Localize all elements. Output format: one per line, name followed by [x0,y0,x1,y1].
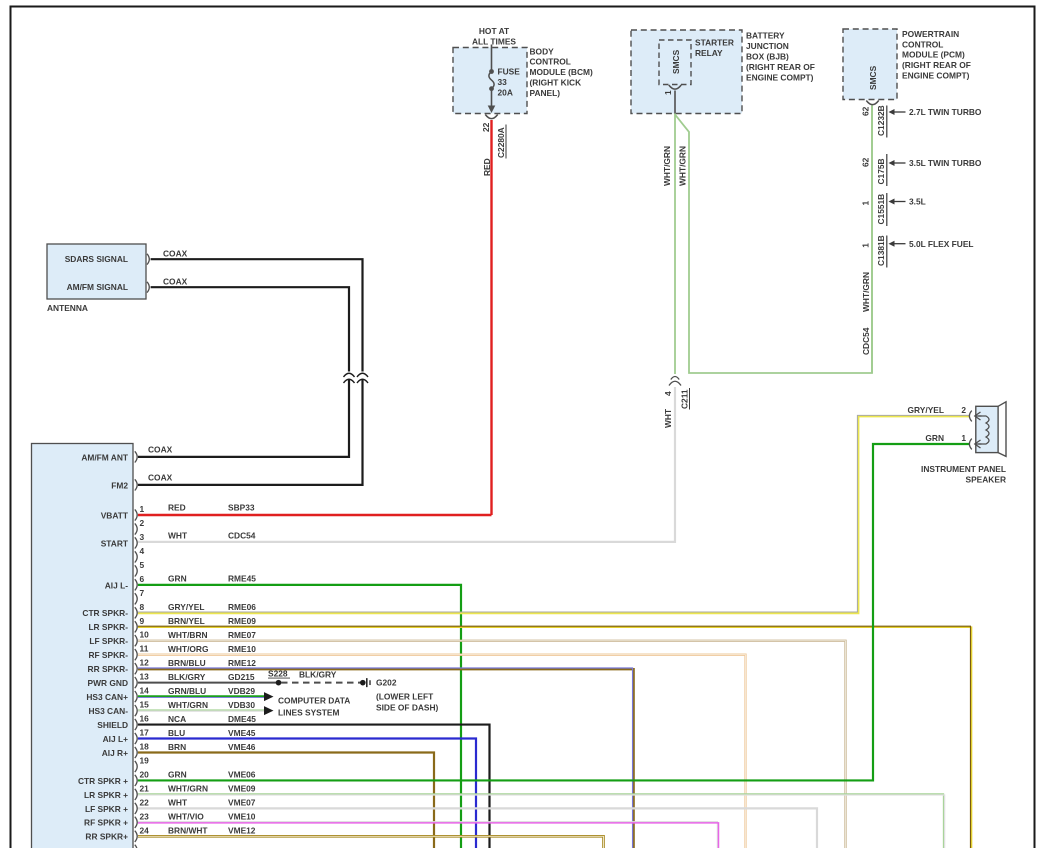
connector C2280A arc [485,115,497,119]
svg-text:WHT/GRN: WHT/GRN [168,784,208,794]
svg-text:RR SPKR+: RR SPKR+ [85,832,128,842]
svg-text:62: 62 [861,106,871,116]
module BCM box [453,48,527,114]
wire pin12 RR SPKR- BRN/BLU RME12 [138,669,634,848]
svg-text:2.7L TWIN TURBO: 2.7L TWIN TURBO [909,107,982,117]
svg-text:WHT/GRN: WHT/GRN [678,146,688,186]
svg-text:C175B: C175B [876,158,886,184]
svg-text:4: 4 [140,546,145,556]
svg-text:WHT/VIO: WHT/VIO [168,812,204,822]
svg-text:COAX: COAX [148,445,173,455]
svg-text:WHT: WHT [168,531,188,541]
svg-text:22: 22 [481,122,491,132]
svg-text:1: 1 [140,504,145,514]
svg-text:VME10: VME10 [228,812,256,822]
svg-text:SHIELD: SHIELD [97,720,128,730]
svg-text:LF SPKR-: LF SPKR- [89,636,128,646]
svg-text:C211: C211 [680,389,690,409]
svg-text:9: 9 [140,616,145,626]
svg-text:23: 23 [140,811,150,821]
wire pin15 HS3 CAN- WHT/GRN VDB30 [138,709,265,711]
svg-text:LF SPKR +: LF SPKR + [85,804,128,814]
svg-text:RME07: RME07 [228,630,256,640]
svg-text:BLK/GRY: BLK/GRY [299,669,337,679]
svg-text:LR SPKR +: LR SPKR + [84,790,128,800]
connector arc SDARS [147,254,149,265]
svg-text:BLU: BLU [168,728,185,738]
wire WHT from C211 to START row [138,387,675,542]
svg-text:2: 2 [961,405,966,415]
svg-text:MODULE (BCM): MODULE (BCM) [530,67,593,77]
svg-text:AIJ L+: AIJ L+ [103,734,128,744]
svg-text:ALL TIMES: ALL TIMES [472,36,516,46]
svg-text:RME45: RME45 [228,573,256,583]
module RADIO box [32,444,134,848]
svg-text:POWERTRAIN: POWERTRAIN [902,29,959,39]
svg-text:LINES SYSTEM: LINES SYSTEM [278,708,339,718]
svg-text:C1232B: C1232B [876,105,886,136]
svg-text:WHT: WHT [168,798,188,808]
svg-text:BRN: BRN [168,742,186,752]
svg-text:PANEL): PANEL) [530,88,561,98]
svg-text:BOX (BJB): BOX (BJB) [746,52,789,62]
svg-text:RELAY: RELAY [695,48,723,58]
wire pin10 LF SPKR- WHT/BRN RME07 [138,641,846,848]
svg-text:BLK/GRY: BLK/GRY [168,672,206,682]
svg-text:12: 12 [140,658,150,668]
svg-text:COAX: COAX [163,277,188,287]
svg-text:DME45: DME45 [228,714,256,724]
wire RED vertical from C2280A to VBATT row [490,120,492,515]
svg-text:62: 62 [861,157,871,167]
svg-text:VDB29: VDB29 [228,686,255,696]
wire pin11 RF SPKR- WHT/ORG RME10 [138,655,746,848]
svg-text:GRY/YEL: GRY/YEL [168,602,204,612]
svg-text:CONTROL: CONTROL [902,39,943,49]
svg-text:WHT/GRN: WHT/GRN [662,146,672,186]
svg-text:C1551B: C1551B [876,194,886,225]
svg-text:HS3 CAN-: HS3 CAN- [88,706,128,716]
svg-text:(RIGHT REAR OF: (RIGHT REAR OF [746,62,815,72]
svg-text:21: 21 [140,783,150,793]
svg-text:AM/FM ANT: AM/FM ANT [81,452,129,462]
svg-text:1: 1 [663,90,673,95]
svg-text:3: 3 [140,532,145,542]
svg-text:15: 15 [140,700,150,710]
svg-text:VME45: VME45 [228,728,256,738]
svg-text:BRN/BLU: BRN/BLU [168,658,206,668]
svg-text:(RIGHT KICK: (RIGHT KICK [530,78,582,88]
svg-text:AIJ R+: AIJ R+ [102,748,128,758]
svg-text:CDC54: CDC54 [861,327,871,355]
svg-text:VBATT: VBATT [101,510,129,520]
svg-text:16: 16 [140,714,150,724]
svg-text:HS3 CAN+: HS3 CAN+ [86,692,128,702]
svg-text:22: 22 [140,797,150,807]
svg-text:GRY/YEL: GRY/YEL [908,405,944,415]
svg-text:WHT/GRN: WHT/GRN [861,272,871,312]
svg-text:1: 1 [861,201,871,206]
speaker pin arcs with arrows [969,411,971,422]
break symbols on coax wires [344,373,355,377]
svg-text:VME09: VME09 [228,784,256,794]
svg-text:ANTENNA: ANTENNA [47,303,88,313]
svg-text:CTR SPKR +: CTR SPKR + [78,776,128,786]
svg-text:10: 10 [140,630,150,640]
relay SMCS inner box [659,40,691,85]
svg-text:GRN/BLU: GRN/BLU [168,686,206,696]
svg-text:ENGINE COMPT): ENGINE COMPT) [746,73,814,83]
svg-text:14: 14 [140,686,150,696]
svg-text:BODY: BODY [530,46,555,56]
svg-text:MODULE (PCM): MODULE (PCM) [902,50,965,60]
svg-text:WHT/ORG: WHT/ORG [168,644,208,654]
wire into fuse [491,45,493,72]
svg-text:(RIGHT REAR OF: (RIGHT REAR OF [902,60,971,70]
svg-text:BATTERY: BATTERY [746,31,785,41]
svg-text:SDARS SIGNAL: SDARS SIGNAL [65,254,128,264]
svg-text:WHT/BRN: WHT/BRN [168,630,208,640]
radio pin connector arcs [135,451,137,462]
connector arc PCM pin [866,101,878,105]
svg-text:WHT: WHT [663,408,673,428]
svg-text:24: 24 [140,825,150,835]
svg-text:RME12: RME12 [228,658,256,668]
svg-text:5: 5 [140,560,145,570]
svg-text:RME06: RME06 [228,602,256,612]
svg-text:RME10: RME10 [228,644,256,654]
svg-text:PWR GND: PWR GND [88,678,128,688]
svg-text:NCA: NCA [168,714,186,724]
svg-text:HOT AT: HOT AT [479,26,510,36]
svg-text:5.0L FLEX FUEL: 5.0L FLEX FUEL [909,239,974,249]
svg-text:RED: RED [168,502,186,512]
wire pin21 LR SPKR+ WHT/GRN VME09 [138,794,944,848]
ground G202 [360,680,366,686]
svg-text:CDC54: CDC54 [228,531,256,541]
svg-text:GD215: GD215 [228,672,255,682]
svg-text:13: 13 [140,672,150,682]
svg-text:VME12: VME12 [228,826,256,836]
svg-text:VME06: VME06 [228,770,256,780]
wire pin23 RF SPKR+ WHT/VIO VME10 [138,822,717,848]
svg-text:G202: G202 [376,678,397,688]
wire pin16 SHIELD NCA DME45 [138,725,490,848]
svg-text:SMCS: SMCS [868,65,878,90]
svg-text:BRN/WHT: BRN/WHT [168,826,208,836]
svg-text:INSTRUMENT PANEL: INSTRUMENT PANEL [921,464,1006,474]
svg-text:GRN: GRN [168,770,187,780]
svg-text:SIDE OF DASH): SIDE OF DASH) [376,702,439,712]
wire pin13 PWR GND BLK/GRY GD215 to S228 [138,682,279,684]
svg-text:11: 11 [140,644,149,654]
svg-text:ENGINE COMPT): ENGINE COMPT) [902,71,970,81]
wire pin20 CTR SPKR+ GRN VME06 [138,444,970,780]
svg-text:2: 2 [140,518,145,528]
svg-text:JUNCTION: JUNCTION [746,41,789,51]
fuse S3 20A [489,69,494,74]
svg-text:CONTROL: CONTROL [530,57,571,67]
module PCM box [843,29,897,100]
svg-text:SBP33: SBP33 [228,502,255,512]
svg-text:RF SPKR-: RF SPKR- [88,650,128,660]
svg-text:CTR SPKR-: CTR SPKR- [82,608,128,618]
svg-text:SMCS: SMCS [671,49,681,74]
wire fuse to connector with arrow [491,89,493,107]
svg-text:FM2: FM2 [111,480,128,490]
module BJB box [631,30,742,114]
svg-text:19: 19 [140,755,150,765]
svg-text:(LOWER LEFT: (LOWER LEFT [376,692,434,702]
svg-text:WHT/GRN: WHT/GRN [168,700,208,710]
splice S228 [276,680,282,686]
svg-text:20A: 20A [498,88,513,98]
svg-text:4: 4 [663,391,673,396]
wire pin8 CTR SPKR- GRY/YEL RME06 [138,416,970,613]
wire pin22 LF SPKR+ WHT VME07 [138,808,817,848]
svg-text:VDB30: VDB30 [228,700,255,710]
wire pin17 AIJ L+ BLU VME45 [138,739,476,848]
wire pin24 RR SPKR+ BRN/WHT VME12 [138,836,604,848]
svg-text:RF SPKR +: RF SPKR + [84,818,128,828]
speaker coil [979,416,990,444]
wire WHT/GRN right branch [675,104,872,373]
wire pin9 LR SPKR- BRN/YEL RME09 [138,627,971,848]
wire pin18 AIJ R+ BRN VME46 [138,752,434,848]
svg-text:AIJ L-: AIJ L- [105,580,128,590]
module ANTENNA box [47,244,146,299]
svg-text:33: 33 [498,77,508,87]
svg-text:6: 6 [140,574,145,584]
connector arc AMFM [147,282,149,293]
svg-text:1: 1 [961,433,966,443]
svg-text:COAX: COAX [148,473,173,483]
svg-text:1: 1 [861,243,871,248]
svg-text:18: 18 [140,741,150,751]
svg-text:VME07: VME07 [228,798,256,808]
connector arc relay pin 1 [669,85,681,89]
wire pin1 VBATT RED SBP33 [138,514,492,516]
wire BLK/GRY dashed to G202 [281,682,361,684]
svg-text:8: 8 [140,602,145,612]
svg-text:17: 17 [140,728,150,738]
wire pin6 AIJ L- GRN RME45 [138,585,461,848]
connector C211 arcs [671,377,679,380]
svg-text:C1381B: C1381B [876,235,886,266]
speaker INSTRUMENT PANEL SPEAKER [976,406,998,452]
svg-text:RME09: RME09 [228,616,256,626]
svg-text:FUSE: FUSE [498,66,521,76]
wire WHT/GRN left branch [674,114,676,375]
svg-text:COMPUTER DATA: COMPUTER DATA [278,695,350,705]
wire WHT/GRN PCM vertical [871,106,873,373]
wire pin14 HS3 CAN+ GRN/BLU VDB29 [138,696,265,698]
svg-text:START: START [101,538,129,548]
svg-text:BRN/YEL: BRN/YEL [168,616,205,626]
wire relay pin to box edge [674,91,676,114]
svg-text:AM/FM SIGNAL: AM/FM SIGNAL [67,282,128,292]
svg-text:C2280A: C2280A [496,127,506,158]
svg-text:7: 7 [140,588,145,598]
svg-text:S228: S228 [268,668,288,678]
svg-text:LR SPKR-: LR SPKR- [88,622,128,632]
svg-text:RR SPKR-: RR SPKR- [88,664,129,674]
svg-text:STARTER: STARTER [695,38,734,48]
svg-text:VME46: VME46 [228,742,256,752]
svg-text:SPEAKER: SPEAKER [966,475,1007,485]
svg-text:GRN: GRN [925,433,944,443]
svg-text:RED: RED [482,158,492,176]
svg-text:20: 20 [140,769,150,779]
svg-text:3.5L: 3.5L [909,197,926,207]
svg-text:3.5L TWIN TURBO: 3.5L TWIN TURBO [909,158,982,168]
svg-text:COAX: COAX [163,249,188,259]
svg-text:GRN: GRN [168,573,187,583]
